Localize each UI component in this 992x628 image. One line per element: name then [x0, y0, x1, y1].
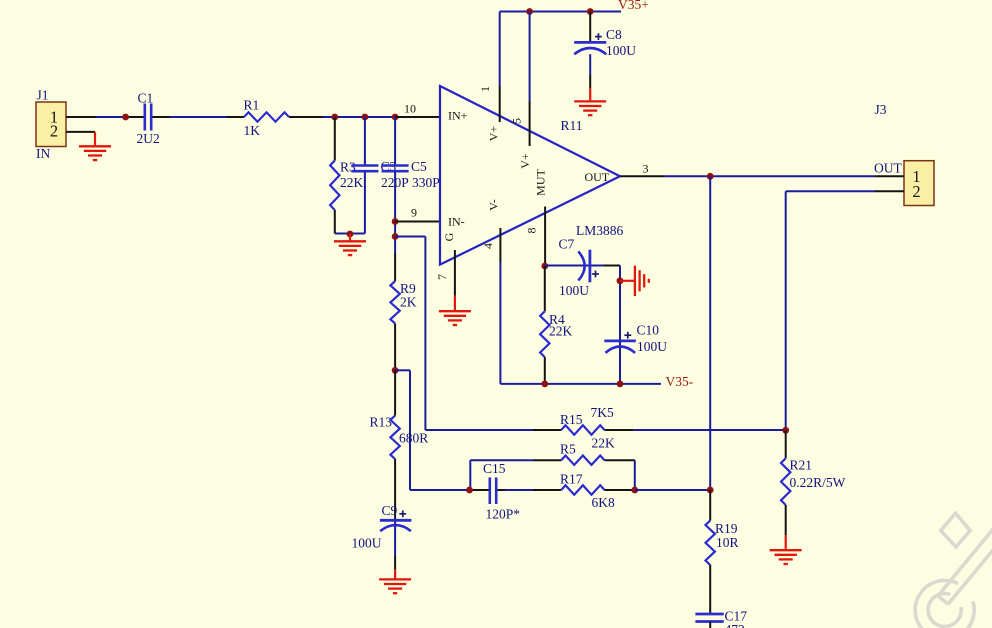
svg-text:C1: C1 — [138, 91, 154, 106]
svg-text:330P: 330P — [412, 175, 440, 190]
node IN+ junction C — [392, 114, 399, 121]
svg-text:C5: C5 — [411, 159, 427, 174]
ground below R21 — [785, 535, 787, 550]
svg-text:IN: IN — [36, 146, 50, 161]
svg-text:120P*: 120P* — [486, 507, 521, 522]
svg-text:C7: C7 — [559, 237, 575, 252]
svg-text:R17: R17 — [560, 472, 583, 487]
wire C7 right down leg — [619, 266, 621, 384]
svg-text:R21: R21 — [790, 458, 813, 473]
node rail-pin5 — [526, 8, 533, 15]
svg-text:100U: 100U — [352, 536, 382, 551]
node R4 bottom — [541, 381, 548, 388]
node ground branch — [347, 231, 354, 238]
op-amp U1 LM3886 triangle — [440, 86, 620, 265]
wire J1 to C1 — [96, 116, 129, 118]
pin 3 output lead — [620, 175, 664, 177]
wire to output leg — [635, 489, 710, 491]
wire C1 to R1 — [170, 116, 227, 118]
ground at pin 7 — [454, 296, 456, 312]
node input junction — [122, 114, 129, 121]
wire J3 pin1 lead — [875, 175, 904, 177]
wire R3 bottom to ground branch — [335, 233, 365, 235]
node R17-R5 junction — [631, 487, 638, 494]
pin 7 wire — [454, 250, 456, 296]
node R15-R21 junction — [782, 427, 789, 434]
pin 4 wire — [499, 228, 501, 262]
svg-text:IN+: IN+ — [448, 109, 468, 123]
svg-text:V-: V- — [487, 199, 501, 211]
svg-text:472: 472 — [725, 622, 745, 628]
capacitor C10 100U electrolytic — [624, 334, 631, 336]
ground at J1 pin2 — [94, 132, 96, 146]
svg-text:MUT: MUT — [533, 169, 547, 196]
svg-text:C9: C9 — [382, 503, 398, 518]
svg-text:C10: C10 — [637, 323, 660, 338]
svg-text:R13: R13 — [370, 415, 393, 430]
svg-text:LM3886: LM3886 — [576, 223, 624, 238]
svg-text:R1: R1 — [244, 98, 260, 113]
svg-text:100U: 100U — [559, 283, 589, 298]
node rotated-ground junction — [617, 277, 624, 284]
svg-text:V+: V+ — [518, 153, 532, 169]
svg-text:OUT: OUT — [585, 170, 610, 184]
svg-text:C8: C8 — [606, 27, 622, 42]
svg-text:2: 2 — [50, 122, 58, 141]
svg-text:10: 10 — [404, 102, 416, 116]
wire pin 10 to op-amp — [395, 116, 440, 118]
node C10 bottom — [617, 381, 624, 388]
ground below R3/C3 — [349, 234, 351, 241]
capacitor C8 100U electrolytic — [587, 8, 594, 15]
svg-text:0.22R/5W: 0.22R/5W — [790, 475, 846, 490]
svg-text:22K: 22K — [340, 175, 364, 190]
svg-text:1K: 1K — [244, 123, 261, 138]
pin 8 wire — [544, 207, 546, 267]
svg-text:7K5: 7K5 — [591, 405, 614, 420]
svg-text:6K8: 6K8 — [592, 495, 615, 510]
svg-text:7: 7 — [435, 274, 449, 280]
wire R9 bottom to lower feedback line — [395, 369, 410, 371]
ground below C8 — [589, 88, 591, 101]
wire R1 to IN+ net — [323, 116, 395, 118]
svg-text:V35-: V35- — [666, 374, 694, 389]
svg-text:J1: J1 — [37, 88, 49, 103]
node R9 bottom junction — [392, 367, 399, 374]
watermark stem band — [938, 511, 992, 604]
svg-text:2K: 2K — [400, 295, 417, 310]
svg-text:3: 3 — [643, 162, 649, 176]
pin 5 wire — [529, 101, 531, 146]
svg-text:G: G — [442, 232, 456, 241]
svg-text:22K: 22K — [549, 324, 573, 339]
svg-text:680R: 680R — [399, 431, 428, 446]
wire V+ rail — [500, 11, 621, 13]
svg-text:2: 2 — [912, 182, 920, 201]
svg-text:100U: 100U — [637, 339, 667, 354]
svg-text:5: 5 — [510, 118, 524, 124]
svg-text:9: 9 — [411, 206, 417, 220]
svg-text:IN-: IN- — [448, 215, 465, 229]
svg-text:100U: 100U — [606, 43, 636, 58]
ground rotated at C7 right — [620, 280, 635, 282]
wire J1 pin2 lead — [66, 131, 95, 133]
wire J3 pin2 to R21 — [786, 190, 875, 192]
node feedback tap — [392, 233, 399, 240]
svg-text:V35+: V35+ — [618, 0, 649, 12]
svg-text:4: 4 — [481, 243, 495, 249]
node IN+ junction A — [331, 114, 338, 121]
svg-text:22K: 22K — [592, 435, 616, 450]
node IN+ junction B — [362, 114, 369, 121]
node C15 left junction — [466, 487, 473, 494]
wire feedback tap to R15 line — [395, 236, 425, 238]
node IN- junction — [392, 218, 399, 225]
svg-text:2U2: 2U2 — [137, 131, 160, 146]
svg-text:C15: C15 — [483, 461, 506, 476]
svg-text:R15: R15 — [560, 412, 583, 427]
svg-text:8: 8 — [525, 228, 539, 234]
connector J3 — [904, 161, 934, 206]
wire V- rail — [499, 262, 501, 384]
svg-text:OUT: OUT — [874, 161, 902, 176]
svg-text:R5: R5 — [560, 442, 576, 457]
svg-text:1: 1 — [478, 86, 492, 92]
watermark ring — [915, 580, 974, 628]
svg-text:R11: R11 — [561, 118, 583, 133]
node pin8-C7 junction — [541, 263, 548, 270]
svg-text:R19: R19 — [715, 521, 738, 536]
wire J1 pin1 lead — [66, 116, 96, 118]
node output junction — [707, 173, 714, 180]
watermark diamond — [941, 513, 971, 547]
wire J3 pin2 lead — [875, 190, 904, 192]
svg-text:10R: 10R — [716, 535, 739, 550]
wire output net — [664, 175, 875, 177]
ground below C9 — [394, 570, 396, 580]
connector J1 — [36, 102, 66, 147]
svg-text:V+: V+ — [487, 126, 501, 142]
node output-R19 junction — [707, 487, 714, 494]
pin 1 wire — [499, 86, 501, 122]
svg-text:J3: J3 — [875, 102, 887, 117]
wire pin 9 to op-amp — [395, 221, 440, 223]
